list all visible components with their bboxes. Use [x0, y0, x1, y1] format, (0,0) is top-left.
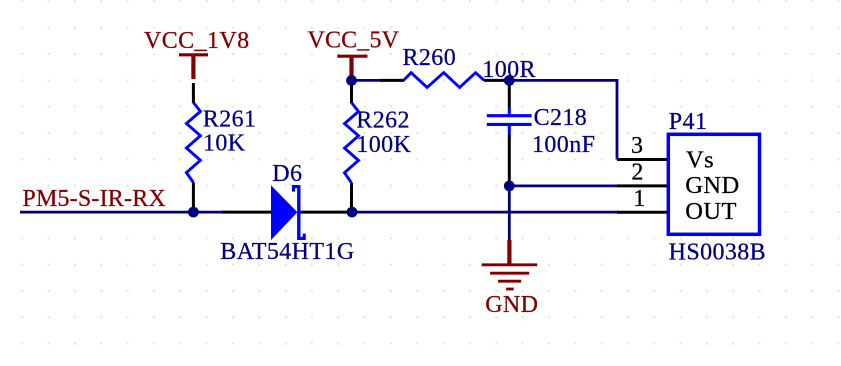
svg-text:GND: GND	[685, 172, 739, 199]
svg-text:Vs: Vs	[686, 147, 714, 174]
svg-text:100nF: 100nF	[532, 132, 595, 158]
svg-text:GND: GND	[485, 292, 538, 318]
svg-text:VCC_5V: VCC_5V	[308, 27, 400, 53]
svg-text:3: 3	[631, 133, 643, 159]
svg-text:100R: 100R	[482, 57, 536, 83]
svg-text:R261: R261	[203, 106, 257, 132]
svg-text:P41: P41	[669, 109, 708, 135]
svg-text:100K: 100K	[356, 132, 411, 158]
svg-text:2: 2	[631, 160, 643, 186]
svg-text:C218: C218	[534, 105, 588, 131]
svg-text:R260: R260	[403, 45, 457, 71]
svg-text:10K: 10K	[203, 131, 246, 157]
svg-text:R262: R262	[356, 108, 410, 134]
svg-text:1: 1	[633, 186, 645, 212]
svg-text:VCC_1V8: VCC_1V8	[144, 28, 249, 54]
svg-text:OUT: OUT	[685, 198, 737, 225]
svg-text:HS0038B: HS0038B	[669, 239, 767, 265]
svg-text:PM5-S-IR-RX: PM5-S-IR-RX	[22, 186, 166, 212]
svg-text:D6: D6	[272, 161, 302, 187]
svg-text:BAT54HT1G: BAT54HT1G	[220, 239, 354, 265]
